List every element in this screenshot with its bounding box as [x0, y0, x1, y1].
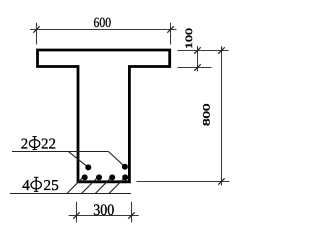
svg-text:600: 600 — [94, 16, 112, 31]
svg-text:300: 300 — [93, 202, 114, 219]
svg-text:800: 800 — [201, 104, 212, 127]
svg-text:2: 2 — [21, 137, 28, 153]
svg-text:100: 100 — [183, 28, 194, 49]
svg-text:4: 4 — [22, 178, 30, 194]
svg-text:22: 22 — [41, 137, 56, 153]
svg-text:25: 25 — [43, 178, 59, 194]
